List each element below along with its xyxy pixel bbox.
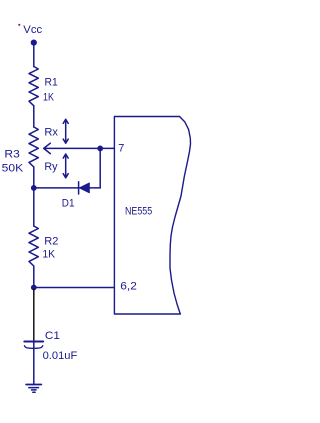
svg-text:Ry: Ry	[44, 161, 58, 173]
ground	[26, 384, 41, 386]
svg-text:Rx: Rx	[44, 126, 58, 138]
svg-text:6,2: 6,2	[120, 281, 137, 293]
wire R3 to R2	[33, 167, 35, 226]
resistor R2	[29, 226, 38, 269]
node Vcc dot	[31, 40, 37, 46]
potentiometer R3	[29, 127, 38, 167]
wire Vcc to R1	[33, 45, 35, 67]
R3 wiper arrow	[44, 143, 114, 153]
wire node to pin 6,2	[34, 287, 114, 289]
wire junction down to diode	[99, 148, 101, 188]
capacitor C1 top plate	[24, 341, 43, 343]
node R2 bottom	[31, 285, 37, 291]
IC NE555 torn right edge	[170, 117, 191, 315]
wire R1 to R3	[33, 106, 35, 127]
svg-text:C1: C1	[45, 330, 60, 342]
node wiper junction	[97, 146, 103, 152]
svg-text:50K: 50K	[2, 163, 24, 175]
svg-text:1K: 1K	[43, 92, 54, 104]
Rx range arrow	[63, 119, 68, 143]
svg-text:7: 7	[118, 143, 124, 155]
IC NE555 outline	[114, 117, 180, 315]
svg-text:D1: D1	[62, 197, 75, 209]
node R3 bottom	[31, 185, 37, 191]
resistor R1	[29, 67, 38, 106]
svg-text:Vcc: Vcc	[23, 24, 42, 36]
wire node to C1 (black)	[33, 289, 35, 340]
wire C1 to ground	[33, 343, 35, 385]
Vcc pin marker	[18, 24, 20, 26]
svg-text:R3: R3	[4, 148, 19, 160]
wire diode row	[34, 187, 100, 189]
Ry range arrow	[63, 154, 68, 178]
svg-text:R2: R2	[44, 236, 58, 248]
wire R2 to node	[33, 269, 35, 288]
svg-text:R1: R1	[45, 77, 58, 89]
svg-text:NE555: NE555	[125, 205, 152, 217]
svg-text:0.01uF: 0.01uF	[43, 350, 78, 362]
svg-text:1K: 1K	[42, 249, 55, 261]
capacitor C1 curved plate	[24, 346, 42, 349]
diode D1	[78, 182, 80, 194]
